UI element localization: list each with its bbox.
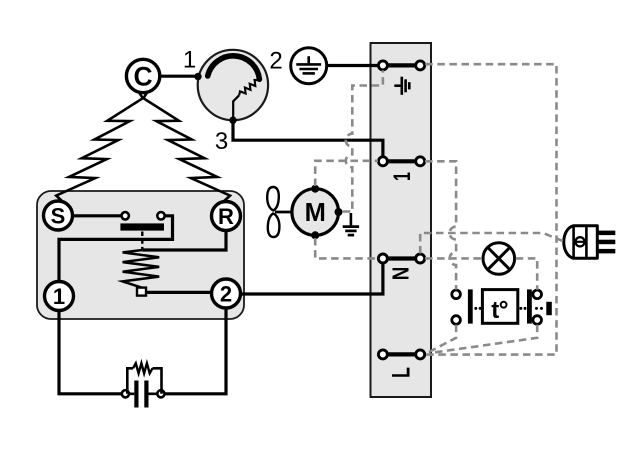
motor winding C-S	[56, 88, 143, 201]
svg-text:2: 2	[269, 48, 282, 75]
thermostat right terminal bottom	[533, 316, 542, 325]
wire fan to motor	[275, 211, 292, 214]
node pin 3 junction dot	[229, 117, 236, 124]
thermostat t box	[482, 290, 517, 324]
thermostat left terminal bottom	[452, 316, 461, 325]
relay terminal 2 circle	[212, 279, 241, 308]
label 3 (protector)	[215, 128, 228, 155]
dashed wire earth terminal to plug to terminal L	[425, 64, 556, 354]
terminal strip (connection block)	[371, 43, 432, 397]
label 2 (protector)	[269, 48, 282, 75]
run capacitor right contact	[157, 390, 164, 397]
svg-text:R: R	[218, 204, 234, 229]
svg-text:1: 1	[183, 47, 196, 74]
terminal R circle	[212, 202, 241, 231]
wire contact to relay terminal 1	[59, 216, 173, 282]
strip label 1	[389, 172, 416, 181]
node pin 1 junction dot	[194, 73, 201, 80]
svg-text:t: t	[491, 297, 499, 324]
dashed wire thermostat left to terminal L	[429, 325, 457, 353]
dashed wire motor bottom to terminal N	[315, 238, 378, 258]
terminal S circle	[44, 201, 73, 230]
dashed wire lamp to thermostat right	[516, 258, 538, 289]
svg-text:N: N	[387, 267, 413, 281]
fan blades	[267, 187, 279, 237]
plug screw	[575, 237, 585, 246]
svg-text:3: 3	[215, 128, 228, 155]
dashed wire terminal 1 to thermostat	[425, 161, 456, 289]
motor right junction dot	[335, 208, 343, 216]
svg-text:L: L	[387, 367, 415, 378]
fan motor M	[292, 189, 339, 236]
dashed wire motor top to terminal 1	[315, 161, 378, 186]
relay contact bar	[120, 223, 164, 230]
svg-text:1: 1	[389, 172, 416, 181]
strip terminal N	[378, 254, 424, 263]
wire S to contact	[72, 214, 121, 217]
protector bimetal arc	[208, 56, 260, 79]
wire relay terminal 1 to capacitor	[59, 310, 122, 394]
strip label N	[387, 267, 413, 281]
strip label L	[387, 367, 415, 378]
svg-text:M: M	[305, 199, 326, 227]
svg-text:1: 1	[53, 284, 65, 309]
strip terminal L	[378, 350, 424, 359]
plug prongs	[597, 231, 615, 254]
thermostat sensor dots	[535, 307, 543, 310]
wire C to protector pin 1	[160, 75, 199, 78]
wire earth symbol to strip earth terminal	[327, 64, 379, 67]
thermal protector body	[198, 50, 268, 120]
dashed wire terminal N to lamp	[425, 257, 482, 260]
protector internal wire to pin 3	[233, 95, 239, 120]
relay terminal 1 circle	[45, 282, 74, 311]
wire R to relay coil top	[142, 230, 226, 250]
wire coil square to relay terminal 2	[146, 291, 212, 294]
thermostat right contact bar	[527, 289, 532, 323]
strip earth label (rotated ground symbol)	[394, 77, 409, 95]
protector heater resistor	[239, 80, 258, 95]
thermostat left terminal top	[452, 290, 461, 299]
wire relay terminal 2 to strip N terminal	[240, 263, 383, 294]
motor winding C-R	[143, 88, 230, 201]
run capacitor left contact	[122, 390, 129, 397]
label 1 (protector)	[183, 47, 196, 74]
mains plug body	[564, 226, 598, 259]
motor bottom junction dot	[311, 231, 319, 239]
earth symbol in circle	[291, 48, 327, 84]
svg-text:C: C	[134, 62, 153, 92]
thermostat left dotted link	[474, 307, 481, 310]
terminal C circle	[126, 59, 159, 92]
relay contact point left	[122, 212, 129, 219]
svg-text:2: 2	[220, 282, 232, 307]
capacitor plates	[129, 381, 157, 408]
relay box (starting device)	[37, 191, 244, 319]
bleed resistor loop	[127, 363, 161, 394]
wire node 3 to terminal 1	[233, 122, 383, 157]
thermostat right terminal top	[533, 290, 542, 299]
thermostat left contact bar	[468, 289, 473, 323]
interior lamp	[483, 243, 515, 275]
thermostat right dotted link	[519, 307, 526, 310]
relay contact point right	[157, 212, 164, 219]
strip terminal 1	[378, 157, 424, 166]
fan motor ground symbol	[343, 213, 359, 235]
dashed wire thermostat right to terminal L	[429, 325, 537, 354]
svg-text:S: S	[51, 204, 66, 229]
dashed wire motor earth to strip earth terminal	[343, 70, 383, 211]
motor top junction dot	[311, 185, 319, 193]
relay coil spring	[123, 250, 160, 288]
strip earth terminal	[378, 61, 424, 70]
wire capacitor to relay terminal 2	[165, 308, 227, 394]
relay coil end square	[137, 288, 146, 296]
thermostat sensor pin	[546, 302, 552, 315]
relay mechanical link (dashed)	[141, 232, 143, 250]
dashed wire terminal N to plug	[420, 233, 563, 254]
